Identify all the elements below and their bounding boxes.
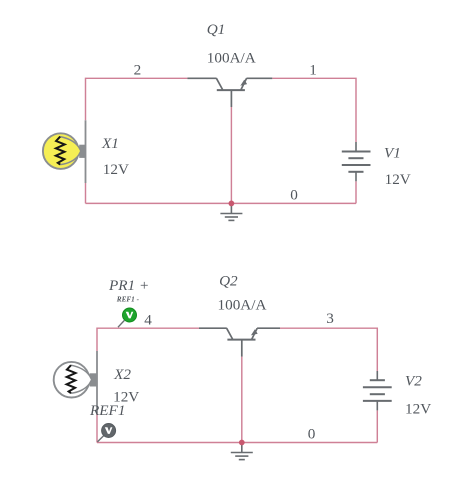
svg-text:0: 0 — [290, 187, 298, 204]
junction dot node 0 (bottom) — [239, 440, 245, 446]
transistor Q1 — [187, 78, 272, 107]
svg-text:2: 2 — [134, 62, 142, 79]
wire net 0: bottom segment (bottom circuit) — [97, 442, 377, 444]
wire net 2: left lower segment — [85, 183, 87, 203]
wire net 0: bottom segment — [86, 202, 357, 204]
svg-text:PR1 +: PR1 + — [108, 277, 149, 294]
wire net 3: top-right segment — [280, 328, 377, 371]
wire net 3: right lower segment — [376, 410, 378, 442]
svg-text:4: 4 — [144, 312, 152, 329]
battery V2 — [363, 371, 392, 410]
ground (top circuit) — [220, 203, 242, 220]
probe PR1 tail — [118, 320, 124, 327]
svg-text:0: 0 — [308, 425, 316, 442]
lamp X2 — [54, 351, 97, 413]
wire net 4: top-left segment — [97, 328, 199, 351]
svg-text:1: 1 — [309, 62, 317, 79]
svg-text:3: 3 — [326, 310, 334, 327]
transistor Q2 — [199, 328, 280, 356]
svg-text:V1: V1 — [384, 145, 401, 162]
svg-text:12V: 12V — [385, 171, 411, 188]
wire net 1: right lower segment — [355, 181, 357, 203]
wire net 0: base vertical segment (bottom circuit) — [241, 357, 243, 443]
svg-text:12V: 12V — [405, 401, 431, 418]
wire net 2: top-left segment — [86, 78, 188, 120]
svg-text:100A/A: 100A/A — [218, 297, 267, 314]
wire net 1: top-right segment — [272, 78, 356, 142]
wire net 0: base vertical segment — [230, 107, 232, 203]
svg-text:100A/A: 100A/A — [207, 49, 256, 66]
svg-text:Q2: Q2 — [219, 273, 238, 290]
svg-text:REF1: REF1 — [89, 402, 125, 419]
svg-text:X1: X1 — [101, 135, 119, 152]
svg-text:REF1 -: REF1 - — [116, 296, 140, 304]
svg-text:X2: X2 — [113, 366, 131, 383]
svg-text:Q1: Q1 — [207, 21, 226, 38]
probe REF1 tail — [97, 436, 103, 442]
probe PR1 — [123, 308, 137, 322]
svg-text:V2: V2 — [405, 372, 422, 389]
battery V1 — [342, 142, 371, 181]
lamp X1 — [43, 120, 86, 183]
probe REF1 — [102, 424, 116, 438]
svg-text:12V: 12V — [103, 161, 129, 178]
ground (bottom circuit) — [231, 443, 253, 460]
wire net 4: left lower segment — [96, 413, 98, 443]
junction dot node 0 (top) — [229, 201, 235, 207]
